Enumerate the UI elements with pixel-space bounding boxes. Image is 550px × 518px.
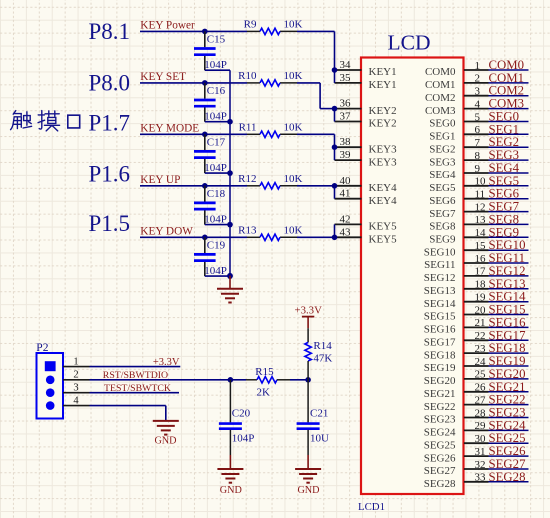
svg-text:SEG9: SEG9 [429,234,456,246]
port P1.7 [89,110,131,135]
pin 40 KEY4 stub [335,175,398,194]
svg-text:KEY2: KEY2 [369,105,397,117]
svg-text:KEY MODE: KEY MODE [140,123,199,135]
svg-text:KEY2: KEY2 [369,118,397,130]
ground (cap rail) [217,276,243,303]
pin 28 net SEG23 wire [424,406,529,426]
svg-text:24: 24 [475,356,487,368]
wire KEY UP horizontal [140,185,335,187]
svg-text:P8.1: P8.1 [89,19,131,44]
svg-text:35: 35 [340,72,352,84]
svg-text:21: 21 [475,317,486,329]
pin 30 net SEG25 wire [424,431,529,451]
svg-text:2K: 2K [257,387,271,399]
svg-text:SEG2: SEG2 [489,135,520,149]
svg-text:R10: R10 [238,70,257,82]
resistor R15 2K [255,366,277,398]
svg-text:KEY1: KEY1 [369,79,397,91]
svg-text:SEG13: SEG13 [489,277,526,291]
svg-text:104P: 104P [232,433,255,445]
svg-text:RST/SBWTDIO: RST/SBWTDIO [103,370,168,381]
svg-text:16: 16 [475,253,487,265]
svg-text:SEG5: SEG5 [429,182,456,194]
port P1.5 [89,211,131,236]
svg-text:GND: GND [154,436,176,447]
svg-text:42: 42 [340,213,351,225]
svg-text:KEY5: KEY5 [369,221,398,233]
svg-text:40: 40 [340,175,352,187]
svg-text:GND: GND [220,485,242,496]
pin 17 net SEG12 wire [424,264,529,284]
junction node R9-pin [332,67,338,73]
net label KEY UP [140,174,180,186]
svg-text:33: 33 [475,472,487,484]
svg-text:104P: 104P [204,214,227,226]
svg-text:30: 30 [475,433,487,445]
svg-text:10U: 10U [310,433,329,445]
pin 25 net SEG20 wire [424,367,529,387]
wire R11 to pins [334,134,336,160]
svg-text:SEG6: SEG6 [429,195,456,207]
svg-text:SEG27: SEG27 [424,465,456,477]
pin 22 net SEG17 wire [424,328,529,348]
pin 42 KEY5 stub [335,213,398,232]
ground (C21) [297,485,319,496]
pin 29 net SEG24 wire [424,418,529,438]
svg-text:104P: 104P [204,265,227,277]
svg-text:LCD1: LCD1 [358,501,385,513]
connector P2 [37,353,64,419]
gnd rail wire [227,70,233,279]
P2 pin 3 wire TEST/SBWTCK [63,383,179,394]
svg-text:1: 1 [475,60,481,72]
svg-text:SEG19: SEG19 [489,354,526,368]
svg-text:38: 38 [340,136,352,148]
capacitor C19 104P [194,235,230,278]
svg-text:SEG20: SEG20 [489,367,526,381]
wire KEY Power horizontal [140,30,335,32]
svg-text:2: 2 [475,73,481,85]
pin 12 net SEG7 wire [429,200,528,220]
svg-text:2: 2 [73,370,78,381]
svg-text:SEG15: SEG15 [489,303,526,317]
svg-text:43: 43 [340,226,352,238]
wire R12 to pins [334,186,336,199]
svg-text:10K: 10K [284,18,303,30]
svg-text:P1.6: P1.6 [89,161,131,186]
svg-text:COM2: COM2 [425,92,456,104]
net label KEY MODE [140,123,199,135]
pin 38 KEY3 stub [335,136,398,155]
svg-text:104P: 104P [204,59,227,71]
svg-text:KEY4: KEY4 [369,182,398,194]
pin 24 net SEG19 wire [424,354,529,374]
capacitor C21 10U [295,380,329,483]
svg-text:20: 20 [475,304,487,316]
pin 37 KEY2 stub [335,111,397,130]
pin 19 net SEG14 wire [424,290,529,310]
svg-text:SEG22: SEG22 [489,393,526,407]
LCD title [388,31,431,55]
svg-text:SEG26: SEG26 [489,444,527,458]
junction R14/R15/C21 [305,377,311,383]
svg-text:11: 11 [475,189,486,201]
resistor R9 10K [244,18,303,34]
capacitor C16 104P [194,80,230,123]
wire R10 to pins [320,83,334,122]
svg-text:SEG15: SEG15 [424,311,456,323]
svg-text:SEG23: SEG23 [424,414,456,426]
svg-text:C17: C17 [207,137,226,149]
svg-text:36: 36 [340,98,352,110]
svg-text:SEG24: SEG24 [424,427,456,439]
resistor R13 10K [238,224,302,240]
svg-text:SEG13: SEG13 [424,285,456,297]
svg-text:37: 37 [340,111,352,123]
wire KEY DOW horizontal [140,236,335,238]
svg-text:R15: R15 [255,366,274,378]
svg-text:P8.0: P8.0 [89,71,131,96]
pin 11 net SEG6 wire [429,187,528,207]
svg-text:KEY Power: KEY Power [140,20,195,32]
pin 3 net COM2 wire [425,84,529,104]
svg-text:9: 9 [475,163,481,175]
svg-text:COM2: COM2 [489,84,525,98]
svg-text:6: 6 [475,124,481,136]
svg-text:10K: 10K [284,121,303,133]
svg-text:SEG6: SEG6 [489,187,520,201]
svg-text:R9: R9 [244,18,257,30]
svg-text:COM3: COM3 [489,97,525,111]
svg-text:25: 25 [475,369,487,381]
svg-text:34: 34 [340,59,352,71]
svg-text:GND: GND [297,485,319,496]
svg-text:SEG9: SEG9 [489,225,520,239]
svg-text:SEG17: SEG17 [424,337,456,349]
P2 pin 2 wire RST/SBWTDIO [63,370,246,381]
svg-text:10K: 10K [284,173,303,185]
svg-text:KEY4: KEY4 [369,195,398,207]
svg-text:SEG19: SEG19 [424,362,456,374]
svg-text:19: 19 [475,292,487,304]
svg-text:SEG12: SEG12 [489,264,526,278]
pin 8 net SEG3 wire [429,148,528,168]
junction node R13-pin [332,235,338,241]
pin 13 net SEG8 wire [429,212,528,232]
svg-text:SEG21: SEG21 [424,388,456,400]
svg-text:C21: C21 [310,407,328,419]
svg-text:SEG2: SEG2 [429,143,455,155]
svg-text:41: 41 [340,188,351,200]
svg-text:+3.3V: +3.3V [153,357,180,368]
svg-text:KEY3: KEY3 [369,156,398,168]
svg-text:17: 17 [475,266,487,278]
svg-text:SEG26: SEG26 [424,452,456,464]
svg-text:10: 10 [475,176,487,188]
svg-text:SEG0: SEG0 [429,118,456,130]
power +3.3V [295,304,323,328]
svg-text:SEG8: SEG8 [429,221,456,233]
svg-text:23: 23 [475,343,487,355]
svg-text:SEG8: SEG8 [489,212,520,226]
svg-text:SEG10: SEG10 [424,246,456,258]
svg-text:C19: C19 [207,240,226,252]
net label KEY SET [140,71,186,83]
pin 5 net SEG0 wire [429,110,528,130]
pin 1 net COM0 wire [425,58,529,78]
svg-text:SEG11: SEG11 [424,259,455,271]
pin 32 net SEG27 wire [424,457,529,477]
capacitor C20 104P [217,380,254,483]
svg-text:22: 22 [475,330,486,342]
svg-text:3: 3 [475,86,481,98]
svg-text:SEG18: SEG18 [489,341,526,355]
svg-text:P2: P2 [36,342,48,354]
designator LCD1 [358,501,385,513]
svg-text:SEG3: SEG3 [429,156,456,168]
svg-text:C18: C18 [207,188,226,200]
svg-text:+3.3V: +3.3V [295,304,323,316]
label 触摸口 (drawn glyphs) [11,111,80,131]
svg-text:SEG22: SEG22 [424,401,456,413]
pin 23 net SEG18 wire [424,341,529,361]
wire KEY SET horizontal [140,82,320,84]
svg-text:29: 29 [475,420,487,432]
port P1.6 [89,161,131,186]
svg-text:5: 5 [475,111,481,123]
ground (P2 pin4) [153,421,179,447]
svg-text:SEG25: SEG25 [489,431,526,445]
wire KEY MODE horizontal [140,133,335,135]
pin 15 net SEG10 wire [424,238,529,258]
svg-text:3: 3 [73,383,78,394]
svg-text:P1.7: P1.7 [89,110,131,135]
svg-text:SEG28: SEG28 [424,478,456,490]
net label KEY DOW [140,226,193,238]
svg-text:SEG14: SEG14 [424,298,456,310]
pin 31 net SEG26 wire [424,444,529,464]
P2 pin 4 wire to gnd [63,395,166,421]
svg-text:SEG4: SEG4 [429,169,456,181]
svg-text:LCD: LCD [388,31,431,55]
svg-text:27: 27 [475,394,487,406]
wire R9 to pins [334,31,336,83]
svg-text:COM0: COM0 [425,66,456,78]
net label KEY Power [140,20,195,32]
pin 39 KEY3 stub [335,149,398,168]
ground (C20) [220,485,242,496]
svg-text:SEG16: SEG16 [424,324,456,336]
svg-text:SEG1: SEG1 [429,131,455,143]
svg-text:104P: 104P [204,162,227,174]
pin 34 KEY1 stub [335,59,397,78]
pin 26 net SEG21 wire [424,380,529,400]
svg-text:10K: 10K [284,224,303,236]
svg-text:C20: C20 [232,407,251,419]
svg-text:SEG12: SEG12 [424,272,456,284]
svg-text:SEG16: SEG16 [489,315,527,329]
svg-text:C15: C15 [207,34,226,46]
svg-text:KEY5: KEY5 [369,234,398,246]
pin 4 net COM3 wire [425,97,529,117]
pin 43 KEY5 stub [335,226,398,245]
wire RST net to R15 [246,379,257,381]
svg-text:14: 14 [475,227,487,239]
svg-text:COM0: COM0 [489,58,525,72]
pin 18 net SEG13 wire [424,277,529,297]
svg-text:32: 32 [475,459,486,471]
svg-text:31: 31 [475,446,486,458]
svg-text:15: 15 [475,240,487,252]
resistor R10 10K [238,70,302,86]
svg-text:104P: 104P [204,111,227,123]
svg-text:KEY DOW: KEY DOW [140,226,193,238]
pin 6 net SEG1 wire [429,122,528,142]
svg-text:4: 4 [73,395,79,406]
svg-text:39: 39 [340,149,352,161]
svg-text:R11: R11 [239,121,257,133]
pin 41 KEY4 stub [335,188,398,207]
resistor R14 47K [305,328,333,380]
pin 2 net COM1 wire [425,71,529,91]
svg-text:1: 1 [73,356,78,367]
svg-text:SEG7: SEG7 [429,208,456,220]
svg-text:P1.5: P1.5 [89,211,131,236]
capacitor C17 104P [194,132,230,175]
pin 14 net SEG9 wire [429,225,528,245]
svg-text:R14: R14 [313,340,332,352]
svg-text:4: 4 [475,98,481,110]
pin 16 net SEG11 wire [424,251,528,271]
pin 27 net SEG22 wire [424,393,529,413]
wire R13 to pins [334,224,336,237]
svg-text:KEY3: KEY3 [369,143,398,155]
svg-text:SEG18: SEG18 [424,349,456,361]
resistor R11 10K [239,121,303,137]
svg-text:KEY SET: KEY SET [140,71,186,83]
svg-text:SEG28: SEG28 [489,470,526,484]
junction C20 tap [228,377,234,383]
svg-text:SEG25: SEG25 [424,439,456,451]
LCD component U-box [361,58,464,495]
svg-text:SEG3: SEG3 [489,148,520,162]
capacitor C15 104P [194,29,230,72]
svg-text:12: 12 [475,201,486,213]
capacitor C18 104P [194,183,230,226]
svg-text:28: 28 [475,407,487,419]
designator P2 [36,342,48,354]
svg-text:R13: R13 [238,224,257,236]
port P8.1 [89,19,131,44]
svg-text:SEG20: SEG20 [424,375,456,387]
pin 20 net SEG15 wire [424,303,529,323]
pin 33 net SEG28 wire [424,470,529,490]
svg-text:10K: 10K [284,70,303,82]
resistor R12 10K [238,173,302,189]
wire R15 to junction [277,379,308,381]
pin 9 net SEG4 wire [429,161,528,181]
svg-text:R12: R12 [238,173,256,185]
svg-text:8: 8 [475,150,481,162]
pin 10 net SEG5 wire [429,174,528,194]
junction node R12-pin [332,183,338,189]
svg-text:SEG5: SEG5 [489,174,520,188]
pin 21 net SEG16 wire [424,315,529,335]
svg-text:SEG23: SEG23 [489,406,526,420]
svg-text:SEG11: SEG11 [489,251,526,265]
svg-text:7: 7 [475,137,481,149]
svg-text:KEY1: KEY1 [369,66,397,78]
junction node R10-pin [332,106,338,112]
svg-text:COM3: COM3 [425,105,456,117]
svg-text:26: 26 [475,382,487,394]
svg-text:KEY UP: KEY UP [140,174,180,186]
junction node R11-pin [332,144,338,150]
svg-text:C16: C16 [207,85,226,97]
P2 pin 1 wire +3.3V [63,356,180,367]
svg-text:47K: 47K [313,353,332,365]
pin 7 net SEG2 wire [429,135,528,155]
port P8.0 [89,71,131,96]
svg-text:TEST/SBWTCK: TEST/SBWTCK [104,383,171,394]
svg-text:18: 18 [475,279,487,291]
svg-text:SEG1: SEG1 [489,122,520,136]
pin 36 KEY2 stub [335,98,397,117]
pin 35 KEY1 stub [335,72,397,91]
svg-text:COM1: COM1 [425,79,456,91]
svg-text:13: 13 [475,214,487,226]
